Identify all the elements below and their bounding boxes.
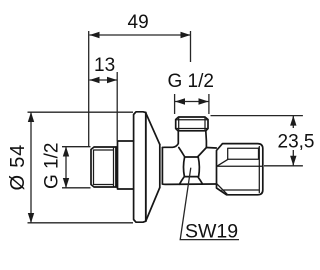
dimension lines xyxy=(28,31,303,240)
left thread G1/2 male, outer xyxy=(91,147,116,187)
svg-text:G 1/2: G 1/2 xyxy=(42,143,63,189)
SW19 hex box xyxy=(183,157,199,177)
nut bottom band xyxy=(217,184,259,195)
body top right of neck xyxy=(206,147,216,150)
SW19 leader xyxy=(180,168,239,240)
nut top-left chamfer diagonal xyxy=(217,159,228,166)
shoulder diagonal to hex xyxy=(198,148,207,158)
body bottom edge xyxy=(162,183,216,185)
neck right side xyxy=(205,131,208,148)
svg-text:Ø 54: Ø 54 xyxy=(7,144,29,191)
13 arrows xyxy=(90,77,100,83)
svg-text:49: 49 xyxy=(128,12,149,33)
G1/2 left dim xyxy=(65,147,67,189)
cone bottom xyxy=(146,188,160,222)
Ø54 dim xyxy=(30,112,32,223)
23,5 arrows xyxy=(290,116,296,126)
arrowheads xyxy=(28,32,297,223)
svg-text:G 1/2: G 1/2 xyxy=(168,71,214,92)
nut shelf box xyxy=(228,148,259,159)
Ø54 arrows xyxy=(28,112,34,122)
cone top xyxy=(146,113,160,145)
top thread inner lines xyxy=(176,117,208,130)
G1/2 left arrows xyxy=(63,147,69,157)
nut outline xyxy=(217,144,263,195)
49 dim xyxy=(90,34,191,36)
49 arrows xyxy=(90,32,100,38)
body top edge + fillet to neck xyxy=(162,131,178,148)
wall block xyxy=(116,141,133,189)
hex to body bottom curves xyxy=(180,177,185,184)
23,5 dim xyxy=(292,116,294,128)
top thread G1/2, outer xyxy=(176,117,208,131)
rosette disc Ø54 xyxy=(134,112,146,222)
nut hex edge full-width xyxy=(217,165,263,167)
svg-text:SW19: SW19 xyxy=(185,221,238,243)
G1/2 top dim xyxy=(175,101,209,103)
svg-text:23,5: 23,5 xyxy=(278,132,315,153)
left thread inner relief lines xyxy=(94,148,114,187)
G1/2 top arrows xyxy=(175,98,185,104)
svg-text:13: 13 xyxy=(94,55,115,76)
13 dim xyxy=(90,79,118,81)
left curve neck to hex xyxy=(179,148,185,157)
nut inner right vertical xyxy=(258,147,260,193)
body left tangent lines xyxy=(159,145,161,188)
